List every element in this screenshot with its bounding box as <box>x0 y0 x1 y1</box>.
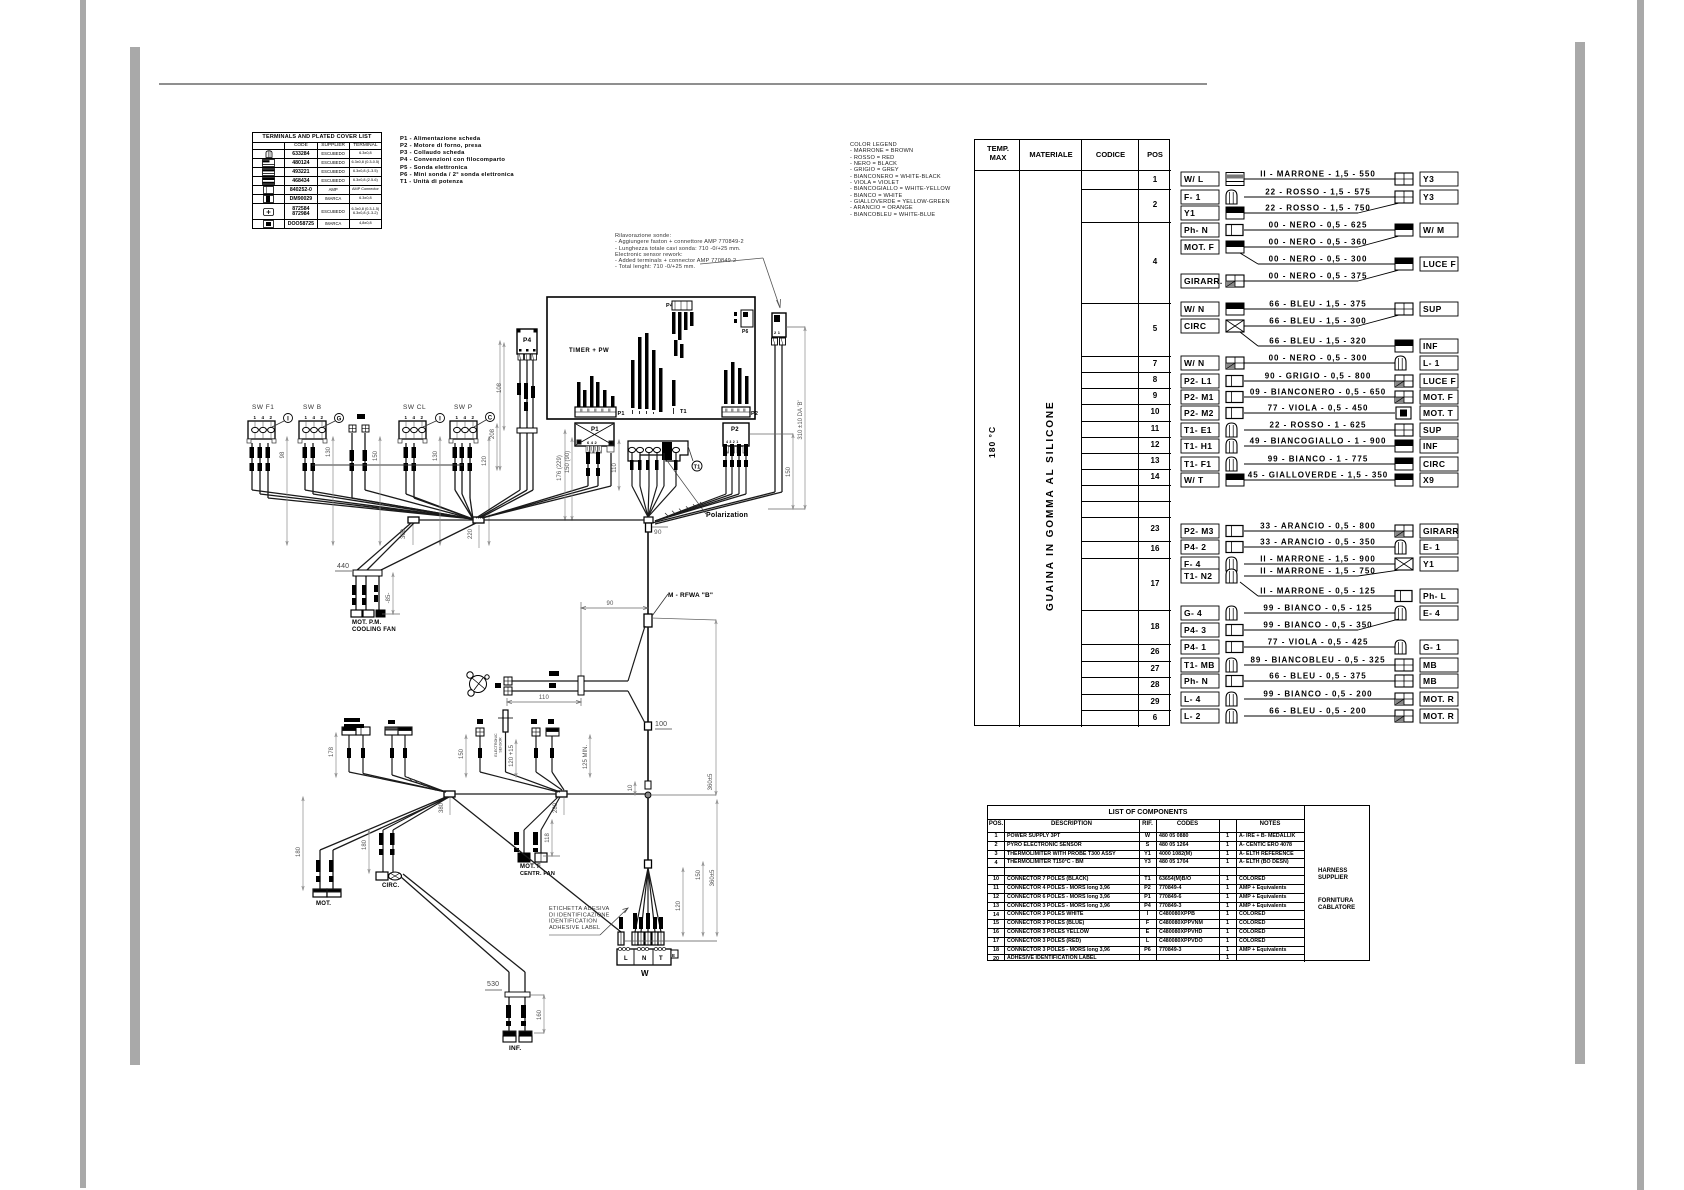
svg-text:49 - BIANCOGIALLO - 1 - 900: 49 - BIANCOGIALLO - 1 - 900 <box>1250 437 1387 446</box>
main trunk vertical <box>647 532 649 614</box>
svg-text:F- 4: F- 4 <box>1184 559 1201 569</box>
terminal B4 <box>398 727 412 735</box>
wire row 22 - ROSSO - 1 - 625 <box>1181 423 1219 437</box>
sleeve on TH pair <box>578 676 584 695</box>
connector P1 external <box>575 423 614 446</box>
wire SUP-C <box>535 736 537 772</box>
board connector P6 marker <box>741 310 753 327</box>
wire row II - MARRONE - 1,5 - 550 <box>1181 172 1219 186</box>
wire row 99 - BIANCO - 0,5 - 125 <box>1181 606 1219 620</box>
sleeve marker W <box>645 860 652 868</box>
cable tie P4 <box>517 428 537 433</box>
reference circle G <box>335 414 344 423</box>
wire P2-1 <box>725 453 727 494</box>
svg-text:L- 4: L- 4 <box>1184 694 1201 704</box>
rework note text <box>615 233 744 271</box>
wire TH lower <box>512 690 628 692</box>
svg-text:Y3: Y3 <box>1423 192 1434 202</box>
wire SW-4 <box>304 443 306 490</box>
reference line across switches <box>312 464 463 466</box>
terminal CENTR FAN <box>535 853 547 862</box>
dimension 150 (90) <box>571 438 573 520</box>
wire SW-11 <box>461 443 463 494</box>
leader from rework note to P6 <box>763 258 781 308</box>
page shadow bar left outer <box>80 0 86 1188</box>
trunk B-C <box>455 793 556 795</box>
svg-text:W/ M: W/ M <box>1423 225 1444 235</box>
svg-text:00 - NERO - 0,5 - 375: 00 - NERO - 0,5 - 375 <box>1269 272 1368 281</box>
svg-text:W/ T: W/ T <box>1184 475 1204 485</box>
node A-left junction <box>408 517 419 523</box>
wire SW-8 <box>405 443 407 494</box>
wire row 33 - ARANCIO - 0,5 - 350 <box>1181 540 1219 554</box>
svg-text:T1- E1: T1- E1 <box>1184 425 1212 435</box>
wire T1-4 <box>656 453 658 486</box>
dim 110 <box>506 698 508 706</box>
harness trunk A-T <box>484 519 644 521</box>
wire P2-4 <box>745 453 747 494</box>
node T junction <box>644 517 653 523</box>
wire W-4 <box>647 868 649 932</box>
connector MOT-PM a <box>351 610 362 617</box>
wire SW-6 <box>351 433 353 498</box>
connector CIRC <box>376 872 388 880</box>
dimension 118 <box>551 820 553 856</box>
svg-text:L- 1: L- 1 <box>1423 358 1440 368</box>
wire W-5 <box>648 868 655 932</box>
terminal MOT F <box>518 853 530 862</box>
wire T1-2 <box>639 453 641 486</box>
wire C-centrfan <box>541 797 560 830</box>
svg-text:F- 1: F- 1 <box>1184 192 1201 202</box>
wire row 66 - BLEU - 1,5 - 375 <box>1181 302 1219 316</box>
svg-text:Ph- L: Ph- L <box>1423 591 1446 601</box>
terminal INF-c <box>546 728 559 736</box>
trunk C-ring <box>567 793 645 795</box>
wire INF-C <box>551 736 553 772</box>
dimension 130 <box>439 437 441 545</box>
board connector P2 header <box>722 407 750 417</box>
svg-text:Ph- N: Ph- N <box>1184 676 1208 686</box>
dimension 178 <box>335 733 337 777</box>
svg-text:W/ L: W/ L <box>1184 174 1204 184</box>
svg-text:MOT. T: MOT. T <box>1423 408 1454 418</box>
wire row 00 - NERO - 0,5 - 300 <box>1240 253 1258 264</box>
wire branch 440-c <box>379 523 476 571</box>
wire circ-inf2 <box>403 874 525 972</box>
list of components table <box>987 805 1370 961</box>
T1 polarization pin <box>662 442 672 460</box>
node B junction <box>444 791 455 797</box>
W pin terminals <box>618 932 624 945</box>
svg-text:00 - NERO - 0,5 - 360: 00 - NERO - 0,5 - 360 <box>1269 238 1368 247</box>
top rule <box>159 83 1207 85</box>
dimension 108 <box>503 343 505 430</box>
svg-text:00 - NERO - 0,5 - 300: 00 - NERO - 0,5 - 300 <box>1269 255 1368 264</box>
wire row 66 - BLEU - 1,5 - 300 <box>1181 319 1219 333</box>
svg-text:LUCE F: LUCE F <box>1423 376 1456 386</box>
dimension 150 <box>465 735 467 777</box>
svg-text:66 - BLEU - 0,5 - 200: 66 - BLEU - 0,5 - 200 <box>1269 707 1366 716</box>
svg-text:00 - NERO - 0,5 - 625: 00 - NERO - 0,5 - 625 <box>1269 221 1368 230</box>
svg-text:66 - BLEU - 1,5 - 375: 66 - BLEU - 1,5 - 375 <box>1269 300 1366 309</box>
svg-text:SUP: SUP <box>1423 425 1442 435</box>
dimension 208 <box>496 424 498 470</box>
svg-text:W/ N: W/ N <box>1184 304 1204 314</box>
junction ring <box>645 792 651 798</box>
page shadow bar right inner <box>1575 42 1585 1064</box>
wire row II - MARRONE - 0,5 - 125 <box>1240 582 1258 596</box>
wire P2-3 <box>738 453 740 494</box>
svg-text:E- 4: E- 4 <box>1423 608 1440 618</box>
wire P4-1 <box>519 360 521 490</box>
wire row 22 - ROSSO - 1,5 - 575 <box>1181 190 1219 204</box>
wire W-6 <box>648 868 661 932</box>
svg-text:00 - NERO - 0,5 - 300: 00 - NERO - 0,5 - 300 <box>1269 354 1368 363</box>
wire TH merge up <box>628 626 645 681</box>
wire row 33 - ARANCIO - 0,5 - 800 <box>1181 524 1219 538</box>
dimension 120 +15 <box>515 740 517 777</box>
dimension 180 <box>368 830 370 873</box>
board P1 pin labels <box>577 382 581 408</box>
wire T1-6 <box>675 453 677 486</box>
dimension 125 MIN. <box>589 735 591 777</box>
svg-text:T1- N2: T1- N2 <box>1184 571 1212 581</box>
harness trunk line A <box>419 519 473 521</box>
svg-text:MOT. F: MOT. F <box>1423 392 1453 402</box>
terminal dl2 <box>327 889 341 897</box>
svg-text:P4- 2: P4- 2 <box>1184 542 1206 552</box>
svg-text:66 - BLEU - 1,5 - 320: 66 - BLEU - 1,5 - 320 <box>1269 337 1366 346</box>
wire row 66 - BLEU - 0,5 - 375 <box>1181 674 1219 688</box>
svg-text:77 - VIOLA - 0,5 - 450: 77 - VIOLA - 0,5 - 450 <box>1268 404 1369 413</box>
svg-text:P2- L1: P2- L1 <box>1184 376 1212 386</box>
wire P4-3 <box>532 360 534 490</box>
wire termB2 <box>362 735 364 774</box>
wire SW-1 <box>251 443 253 490</box>
wire B-circ2 <box>393 797 449 830</box>
connector T1 <box>628 441 688 461</box>
svg-text:G- 1: G- 1 <box>1423 642 1441 652</box>
wire row 22 - ROSSO - 1,5 - 750 <box>1181 206 1219 220</box>
wire row II - MARRONE - 1,5 - 900 <box>1181 557 1219 571</box>
connector P4 <box>517 329 537 354</box>
wire row II - MARRONE - 1,5 - 750 <box>1181 569 1219 583</box>
dimension 180 <box>302 797 304 890</box>
svg-text:II - MARRONE - 1,5 - 750: II - MARRONE - 1,5 - 750 <box>1260 567 1376 576</box>
svg-text:77 - VIOLA - 0,5 - 425: 77 - VIOLA - 0,5 - 425 <box>1268 638 1369 647</box>
svg-text:P2- M2: P2- M2 <box>1184 408 1214 418</box>
svg-text:89 - BIANCOBLEU - 0,5 - 325: 89 - BIANCOBLEU - 0,5 - 325 <box>1250 656 1385 665</box>
trunk ring-right dim <box>651 794 716 796</box>
svg-text:09 - BIANCONERO - 0,5 - 650: 09 - BIANCONERO - 0,5 - 650 <box>1250 388 1386 397</box>
sleeve marker 100 <box>645 722 652 730</box>
svg-text:MB: MB <box>1423 660 1437 670</box>
dimension 10 <box>634 782 636 795</box>
svg-text:P2- M3: P2- M3 <box>1184 526 1214 536</box>
svg-text:II - MARRONE - 1,5 - 900: II - MARRONE - 1,5 - 900 <box>1260 555 1376 564</box>
svg-text:33 - ARANCIO - 0,5 - 350: 33 - ARANCIO - 0,5 - 350 <box>1260 538 1376 547</box>
svg-text:CIRC: CIRC <box>1184 321 1206 331</box>
terminal SUP <box>532 728 540 736</box>
svg-text:G- 4: G- 4 <box>1184 608 1202 618</box>
svg-text:SUP: SUP <box>1423 304 1442 314</box>
svg-text:22 - ROSSO - 1,5 - 750: 22 - ROSSO - 1,5 - 750 <box>1265 204 1371 213</box>
svg-text:T1- H1: T1- H1 <box>1184 441 1212 451</box>
wire row 00 - NERO - 0,5 - 625 <box>1181 223 1219 237</box>
wire TH upper <box>512 680 628 682</box>
wire circ-inf1 <box>401 877 509 972</box>
terminals and plated cover list table <box>252 132 382 229</box>
svg-text:II - MARRONE - 1,5 - 550: II - MARRONE - 1,5 - 550 <box>1260 170 1376 179</box>
terminal crimp TH-a <box>504 677 512 685</box>
svg-text:LUCE F: LUCE F <box>1423 259 1456 269</box>
wire T1-5 <box>663 453 665 486</box>
wire row 00 - NERO - 0,5 - 360 <box>1181 240 1219 254</box>
connector P2 external <box>723 423 749 446</box>
dimension 310 ±10 DA 'B' <box>804 327 806 509</box>
leader adhesive label <box>600 908 628 935</box>
dimension 120 <box>682 868 684 936</box>
reference circle I <box>284 414 293 423</box>
wire B-dl1 <box>320 797 446 850</box>
terminal B2 <box>356 727 370 735</box>
wire row 00 - NERO - 0,5 - 375 <box>1181 274 1219 288</box>
control board U1 outline <box>547 297 755 419</box>
wire SW-12 <box>469 443 471 498</box>
sleeve marker 10 <box>645 781 651 789</box>
wire P1-2 <box>597 453 599 486</box>
wire row 45 - GIALLOVERDE - 1,5 - 350 <box>1181 473 1219 487</box>
dimension 150 <box>379 437 381 545</box>
svg-text:W/ N: W/ N <box>1184 358 1204 368</box>
mid terminal pair <box>357 414 365 419</box>
svg-text:INF: INF <box>1423 441 1438 451</box>
wire SW-2 <box>259 443 261 494</box>
dimension <box>499 341 501 470</box>
svg-text:66 - BLEU - 1,5 - 300: 66 - BLEU - 1,5 - 300 <box>1269 317 1366 326</box>
svg-text:X9: X9 <box>1423 475 1434 485</box>
svg-text:Ph- N: Ph- N <box>1184 225 1208 235</box>
wire T1-3 <box>648 453 650 486</box>
svg-text:99 - BIANCO - 0,5 - 125: 99 - BIANCO - 0,5 - 125 <box>1263 604 1372 613</box>
dimension 160 <box>543 995 545 1033</box>
svg-text:GIRARR.: GIRARR. <box>1184 276 1223 286</box>
thermostat TH1 symbol <box>467 672 489 696</box>
wire row 77 - VIOLA - 0,5 - 425 <box>1181 640 1219 654</box>
svg-text:T1- F1: T1- F1 <box>1184 459 1211 469</box>
svg-text:INF: INF <box>1423 341 1438 351</box>
dimension 98 <box>286 437 288 545</box>
power terminal block W <box>617 949 671 965</box>
wire SW-9 <box>413 443 415 498</box>
terminal crimp TH-b <box>504 687 512 695</box>
svg-text:Y3: Y3 <box>1423 174 1434 184</box>
svg-text:22 - ROSSO - 1 - 625: 22 - ROSSO - 1 - 625 <box>1270 421 1367 430</box>
svg-text:GIRARR: GIRARR <box>1423 526 1459 536</box>
wire TH merge down <box>628 691 645 723</box>
svg-text:Y1: Y1 <box>1423 559 1434 569</box>
terminal INF1 <box>503 1031 516 1036</box>
svg-text:E- 1: E- 1 <box>1423 542 1440 552</box>
page shadow bar left inner <box>130 47 140 1065</box>
legend P1-T1 <box>400 136 514 186</box>
wire row 66 - BLEU - 0,5 - 200 <box>1181 709 1219 723</box>
wire B-dl2 <box>333 797 449 850</box>
dimension 360±5 <box>715 620 717 795</box>
wire termB4 <box>404 735 406 777</box>
board connector P1 header <box>575 407 616 417</box>
horizontal gauge line W <box>624 940 717 942</box>
wire T1-1 <box>631 453 633 486</box>
terminal B3 <box>385 727 399 735</box>
wire P4-2 <box>526 360 528 490</box>
terminal MB <box>476 728 484 736</box>
wire row 00 - NERO - 0,5 - 300 <box>1181 356 1219 370</box>
svg-text:90 - GRIGIO - 0,5 - 800: 90 - GRIGIO - 0,5 - 800 <box>1265 372 1372 381</box>
svg-text:P2- M1: P2- M1 <box>1184 392 1214 402</box>
reference circle I <box>436 414 445 423</box>
wire B-W1 <box>452 797 621 932</box>
board T1 pin labels <box>672 380 676 406</box>
dimension 150 <box>702 862 704 936</box>
node C junction <box>556 791 567 797</box>
wire row 77 - VIOLA - 0,5 - 450 <box>1181 406 1219 420</box>
dimension 110 <box>618 440 620 490</box>
wire row 99 - BIANCO - 0,5 - 350 <box>1181 623 1219 637</box>
wire P1-1 <box>587 453 589 486</box>
reference circle C <box>486 413 495 422</box>
wire SW-7 <box>364 433 366 490</box>
dimension -85- <box>392 573 394 614</box>
wire row 89 - BIANCOBLEU - 0,5 - 325 <box>1181 658 1219 672</box>
reference circle T1 <box>692 461 702 471</box>
wire row 49 - BIANCOGIALLO - 1 - 900 <box>1181 439 1219 453</box>
wire C-motF <box>524 797 558 830</box>
wire SW-10 <box>454 443 456 490</box>
svg-text:99 - BIANCO - 0,5 - 350: 99 - BIANCO - 0,5 - 350 <box>1263 621 1372 630</box>
wire branch 440-b <box>366 523 414 571</box>
sleeve marker B <box>644 614 652 627</box>
svg-text:45 - GIALLOVERDE - 1,5 - 350: 45 - GIALLOVERDE - 1,5 - 350 <box>1248 471 1388 480</box>
svg-text:Y1: Y1 <box>1184 208 1195 218</box>
wire P2-2 <box>731 453 733 494</box>
svg-text:66 - BLEU - 0,5 - 375: 66 - BLEU - 0,5 - 375 <box>1269 672 1366 681</box>
dimension 120 <box>488 437 490 545</box>
svg-text:P4- 1: P4- 1 <box>1184 642 1206 652</box>
wire termB1 <box>348 735 350 772</box>
svg-text:CIRC: CIRC <box>1423 459 1445 469</box>
board net labels column group <box>631 360 635 408</box>
dimension 176 (229) <box>564 430 566 520</box>
wire row 90 - GRIGIO - 0,5 - 800 <box>1181 374 1219 388</box>
wire branch 440-a <box>356 523 411 571</box>
svg-text:P4- 3: P4- 3 <box>1184 625 1206 635</box>
wire P6 pin1 down <box>774 345 776 492</box>
node A junction <box>473 517 484 523</box>
wire specification table <box>974 139 1170 726</box>
wire W-2 <box>635 868 648 932</box>
page shadow bar right outer <box>1637 0 1644 1190</box>
wire row 66 - BLEU - 1,5 - 320 <box>1240 332 1258 346</box>
svg-text:99 - BIANCO - 1 - 775: 99 - BIANCO - 1 - 775 <box>1268 455 1369 464</box>
board P2 pin labels <box>724 370 728 404</box>
wire row 99 - BIANCO - 1 - 775 <box>1181 457 1219 471</box>
svg-text:MB: MB <box>1423 676 1437 686</box>
dim 90 horizontal <box>581 607 648 609</box>
wire B-circ1 <box>383 797 447 830</box>
color legend <box>850 142 950 218</box>
wire P6 pin2 down <box>781 345 783 492</box>
wire P6 bundle to node T <box>652 492 775 523</box>
wire termB3 <box>391 735 393 775</box>
svg-text:22 - ROSSO - 1,5 - 575: 22 - ROSSO - 1,5 - 575 <box>1265 188 1371 197</box>
connector P6 <box>772 313 786 337</box>
svg-text:33 - ARANCIO - 0,5 - 800: 33 - ARANCIO - 0,5 - 800 <box>1260 522 1376 531</box>
wire SW-5 <box>312 443 314 494</box>
svg-text:MOT. F: MOT. F <box>1184 242 1214 252</box>
svg-text:II - MARRONE - 0,5 - 125: II - MARRONE - 0,5 - 125 <box>1260 587 1376 596</box>
terminal dl1 <box>313 889 327 897</box>
terminal B1 <box>342 727 356 735</box>
svg-text:MOT. R: MOT. R <box>1423 711 1454 721</box>
svg-text:MOT. R: MOT. R <box>1423 694 1454 704</box>
tie 440 <box>353 570 382 576</box>
wire P1-3 <box>610 453 612 486</box>
wire W-3 <box>641 868 648 932</box>
wire SW-3 <box>267 443 269 498</box>
svg-text:L- 2: L- 2 <box>1184 711 1201 721</box>
wire MB-C <box>479 736 481 772</box>
terminal INF2 <box>519 1031 532 1036</box>
dimension 360±5 <box>716 800 718 936</box>
wire row 09 - BIANCONERO - 0,5 - 650 <box>1181 390 1219 404</box>
board P4 pin labels <box>672 312 676 334</box>
wire row 99 - BIANCO - 0,5 - 200 <box>1181 692 1219 706</box>
electronic sensor probe <box>503 710 508 732</box>
svg-text:99 - BIANCO - 0,5 - 200: 99 - BIANCO - 0,5 - 200 <box>1263 690 1372 699</box>
dimension 130 <box>332 437 334 545</box>
dimension 150 <box>792 434 794 509</box>
svg-text:T1- MB: T1- MB <box>1184 660 1215 670</box>
